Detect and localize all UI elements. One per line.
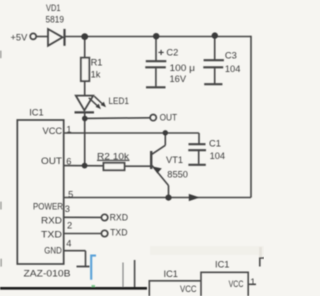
svg-text:IC1: IC1 [29, 107, 43, 117]
svg-text:R2 10k: R2 10k [97, 151, 129, 161]
svg-text:IC1: IC1 [215, 260, 229, 270]
svg-text:ZAZ-010B: ZAZ-010B [24, 269, 71, 280]
svg-text:104: 104 [225, 64, 241, 74]
svg-text:1: 1 [250, 277, 255, 287]
svg-text:C3: C3 [225, 50, 237, 60]
svg-text:+5V: +5V [11, 33, 29, 43]
svg-text:5819: 5819 [46, 14, 65, 24]
svg-text:+: + [158, 47, 164, 59]
svg-text:6: 6 [66, 157, 71, 167]
svg-text:16V: 16V [170, 74, 187, 84]
svg-text:C1: C1 [209, 138, 221, 148]
svg-text:100 μ: 100 μ [170, 63, 196, 73]
svg-text:TXD: TXD [41, 230, 62, 240]
svg-text:2: 2 [67, 220, 72, 230]
svg-text:3: 3 [65, 204, 70, 214]
svg-text:RXD: RXD [41, 216, 62, 226]
svg-text:VCC: VCC [180, 284, 197, 294]
svg-text:1: 1 [66, 124, 71, 134]
svg-text:C2: C2 [166, 47, 178, 57]
svg-text:104: 104 [210, 151, 226, 161]
svg-text:POWER: POWER [33, 201, 63, 211]
svg-text:OUT: OUT [160, 112, 178, 122]
svg-text:R1: R1 [91, 58, 103, 68]
svg-text:IC1: IC1 [164, 269, 178, 279]
svg-text:VT1: VT1 [166, 155, 183, 165]
svg-text:4: 4 [66, 239, 71, 249]
svg-text:5: 5 [68, 189, 73, 199]
svg-text:8550: 8550 [167, 170, 188, 180]
svg-text:VCC: VCC [43, 126, 63, 136]
svg-text:GND: GND [44, 246, 62, 256]
svg-text:RXD: RXD [110, 213, 129, 223]
svg-text:OUT: OUT [41, 156, 62, 166]
svg-text:TXD: TXD [110, 227, 128, 237]
svg-text:1k: 1k [91, 70, 101, 80]
svg-text:VD1: VD1 [46, 3, 61, 13]
svg-text:VCC: VCC [229, 279, 244, 289]
svg-text:LED1: LED1 [109, 96, 130, 106]
